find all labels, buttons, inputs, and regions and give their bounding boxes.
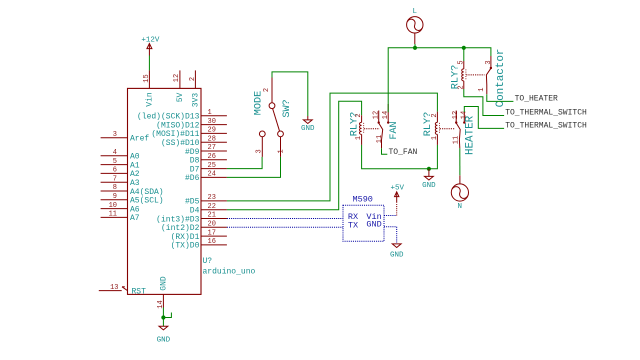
power +12V	[141, 37, 160, 56]
pin 25 D7	[190, 162, 227, 175]
svg-text:(SS)#D10: (SS)#D10	[161, 139, 200, 148]
svg-text:1: 1	[278, 149, 286, 153]
ground M590	[390, 244, 404, 259]
ground relay rail	[422, 169, 436, 190]
svg-text:(RX)D1: (RX)D1	[171, 233, 200, 242]
svg-text:11: 11	[109, 211, 117, 219]
svg-text:(MOSI)#D11: (MOSI)#D11	[151, 130, 199, 139]
pin 23 #D5	[185, 194, 227, 207]
svg-text:11: 11	[452, 136, 460, 144]
svg-text:N: N	[457, 203, 462, 211]
svg-text:MODE: MODE	[253, 91, 264, 115]
svg-text:28: 28	[208, 135, 216, 143]
svg-text:5: 5	[113, 158, 117, 166]
svg-text:22: 22	[208, 203, 216, 211]
junction arduino gnd	[161, 315, 165, 319]
wire contactor pin1 to TO_HEATER	[487, 94, 514, 101]
svg-text:5V: 5V	[176, 93, 185, 103]
svg-text:13: 13	[110, 284, 118, 292]
svg-text:GND: GND	[160, 276, 169, 291]
ac source L	[406, 8, 424, 44]
pin 4 A0	[101, 149, 140, 162]
power +5V	[390, 184, 404, 202]
svg-text:2: 2	[189, 77, 197, 81]
svg-text:A6: A6	[130, 205, 140, 214]
svg-text:Aref: Aref	[130, 135, 149, 144]
svg-text:30: 30	[208, 118, 216, 126]
wire fan pin11 to TO_FAN	[382, 148, 388, 154]
relay contact FAN	[372, 104, 400, 148]
mechanical link contactor	[466, 74, 484, 76]
svg-text:TX: TX	[348, 221, 358, 231]
svg-text:11: 11	[376, 135, 384, 143]
pin 16 (TX)D0	[171, 238, 227, 251]
pin 8 A4(SDA)	[101, 184, 164, 197]
mechanical link heater relay	[440, 128, 455, 130]
svg-text:A1: A1	[130, 161, 140, 170]
svg-text:Vin: Vin	[146, 92, 155, 107]
pin 1 (led)(SCK)D13	[137, 109, 227, 122]
svg-text:(MISO)D12: (MISO)D12	[156, 121, 199, 130]
ac source N	[451, 175, 470, 211]
pin 29 (MOSI)#D11	[151, 127, 227, 140]
relay contact Contactor	[478, 49, 507, 108]
svg-text:12: 12	[372, 111, 380, 119]
svg-text:D8: D8	[190, 157, 200, 166]
svg-text:5: 5	[457, 60, 465, 64]
wire D7 to switch pin3	[227, 157, 262, 169]
pin 11 A7	[101, 211, 140, 224]
svg-text:3: 3	[113, 131, 117, 139]
wire M590 GND dashed	[384, 227, 397, 244]
svg-text:17: 17	[208, 229, 216, 237]
svg-text:24: 24	[208, 171, 216, 179]
wire D6 to switch pin1	[227, 157, 281, 178]
svg-text:FAN: FAN	[389, 121, 400, 139]
svg-text:GND: GND	[422, 182, 436, 190]
wire heater coil pin1 to gnd rail	[429, 145, 438, 169]
svg-text:(int3)#D3: (int3)#D3	[156, 215, 199, 224]
switch SW? MODE	[253, 78, 292, 157]
svg-text:#D6: #D6	[185, 174, 200, 183]
wire L to bus	[414, 44, 416, 48]
pin 24 #D6	[185, 171, 227, 184]
pin 17 (RX)D1	[171, 229, 227, 242]
wire M590 Vin to +5V dashed	[384, 203, 397, 216]
mechanical link fan relay	[364, 128, 380, 130]
svg-text:D4: D4	[190, 207, 200, 216]
pin 13 RST	[99, 284, 146, 297]
wire D4 to fan relay coil	[227, 101, 362, 210]
svg-text:27: 27	[208, 144, 216, 152]
svg-text:3V3: 3V3	[192, 93, 201, 108]
svg-text:23: 23	[208, 194, 216, 202]
wire D3 to M590 RX dashed	[227, 218, 343, 220]
svg-text:1: 1	[208, 109, 212, 117]
IC U? arduino_uno body	[128, 88, 256, 294]
svg-text:21: 21	[208, 212, 216, 220]
svg-text:26: 26	[208, 153, 216, 161]
pin 26 D8	[190, 153, 227, 166]
svg-text:D7: D7	[190, 165, 200, 174]
pin 12 5V	[173, 70, 185, 102]
svg-text:(led)(SCK)D13: (led)(SCK)D13	[137, 113, 200, 122]
svg-text:6: 6	[113, 167, 117, 175]
svg-text:12: 12	[452, 111, 460, 119]
svg-text:4: 4	[113, 149, 117, 157]
junction L	[413, 46, 417, 50]
svg-text:GND: GND	[366, 220, 381, 230]
svg-text:A5(SCL): A5(SCL)	[130, 197, 164, 206]
svg-text:9: 9	[113, 193, 117, 201]
svg-text:8: 8	[113, 184, 117, 192]
wire heater pin14 to TO_THERMAL_SWITCH	[464, 107, 504, 129]
wire fan coil pin1 to gnd rail	[362, 145, 429, 169]
svg-text:TO_THERMAL_SWITCH: TO_THERMAL_SWITCH	[505, 122, 587, 131]
svg-text:GND: GND	[390, 251, 404, 259]
wire D5 to heater relay coil	[227, 93, 438, 201]
wire switch pin2 to GND	[272, 72, 308, 116]
pin 30 (MISO)D12	[156, 118, 227, 131]
svg-text:29: 29	[208, 127, 216, 135]
junction gnd rail	[427, 167, 431, 171]
wire L bus	[388, 48, 491, 112]
svg-text:arduino_uno: arduino_uno	[203, 268, 256, 277]
svg-text:14: 14	[157, 300, 165, 308]
svg-text:Contactor: Contactor	[495, 49, 507, 108]
pin 28 (SS)#D10	[161, 135, 227, 148]
relay coil RLY? contactor	[451, 60, 466, 89]
svg-text:+12V: +12V	[141, 37, 160, 45]
svg-text:M590: M590	[353, 194, 373, 204]
pin 14 GND bottom	[157, 276, 169, 309]
pin 20 (int2)D2	[161, 221, 227, 234]
svg-text:3: 3	[485, 60, 493, 64]
relay coil RLY? fan	[350, 112, 364, 145]
wire heater pin11 to N	[459, 148, 461, 175]
pin 21 (int3)#D3	[156, 212, 227, 225]
svg-text:RLY?: RLY?	[350, 112, 361, 136]
ground arduino	[157, 326, 171, 344]
wire gnd stub right	[163, 313, 171, 318]
pin 2 3V3	[189, 70, 201, 107]
svg-text:A3: A3	[130, 179, 140, 188]
node TO_HEATER	[515, 95, 558, 104]
svg-text:U?: U?	[203, 257, 213, 266]
svg-text:10: 10	[109, 202, 117, 210]
svg-text:15: 15	[143, 74, 151, 82]
svg-text:(TX)D0: (TX)D0	[171, 242, 200, 251]
svg-text:16: 16	[208, 238, 216, 246]
pin 22 D4	[190, 203, 227, 216]
ground switch	[301, 116, 315, 133]
svg-text:HEATER: HEATER	[465, 115, 477, 155]
node TO_THERMAL_SWITCH upper	[505, 109, 587, 118]
svg-text:A2: A2	[130, 170, 140, 179]
svg-text:20: 20	[208, 221, 216, 229]
svg-text:A4(SDA): A4(SDA)	[130, 188, 164, 197]
svg-text:RLY?: RLY?	[423, 112, 434, 136]
wire bus to contactor coil pin5	[463, 48, 465, 61]
svg-text:25: 25	[208, 162, 216, 170]
junction contactor coil	[462, 46, 466, 50]
pin 9 A5(SCL)	[101, 193, 164, 206]
pin 7 A3	[101, 175, 140, 188]
pin 6 A2	[101, 167, 140, 180]
svg-text:L: L	[413, 8, 418, 16]
svg-text:TO_HEATER: TO_HEATER	[515, 95, 558, 104]
svg-text:RLY?: RLY?	[451, 65, 462, 89]
svg-text:GND: GND	[157, 336, 171, 344]
svg-text:+5V: +5V	[390, 184, 404, 192]
svg-text:#D5: #D5	[185, 198, 200, 207]
pin 15 Vin	[143, 70, 155, 106]
svg-text:TO_FAN: TO_FAN	[389, 148, 418, 157]
svg-text:(int2)D2: (int2)D2	[161, 224, 200, 233]
svg-text:GND: GND	[301, 125, 315, 133]
node TO_THERMAL_SWITCH lower	[505, 122, 587, 131]
svg-text:SW?: SW?	[282, 99, 293, 117]
svg-text:TO_THERMAL_SWITCH: TO_THERMAL_SWITCH	[505, 109, 587, 118]
pin 27 #D9	[185, 144, 227, 157]
svg-text:3: 3	[255, 149, 263, 153]
svg-text:7: 7	[113, 175, 117, 183]
wire contactor coil pin2 to TO_THERMAL_SWITCH	[464, 89, 504, 116]
svg-text:12: 12	[173, 74, 181, 82]
pin 3 Aref	[101, 131, 150, 144]
pin 10 A6	[101, 202, 140, 215]
relay contact HEATER	[452, 111, 477, 156]
svg-text:1: 1	[478, 88, 486, 92]
node TO_FAN	[389, 148, 418, 157]
svg-text:#D9: #D9	[185, 148, 200, 157]
svg-text:A7: A7	[130, 214, 140, 223]
wire D2 to M590 TX dashed	[227, 226, 343, 228]
module M590 box	[343, 194, 384, 241]
pin 5 A1	[101, 158, 140, 171]
svg-text:RST: RST	[132, 287, 147, 296]
svg-text:A0: A0	[130, 153, 140, 162]
wire arduino GND pin down	[162, 308, 164, 327]
relay coil RLY? heater	[423, 112, 440, 145]
wire Vin to +12V	[148, 56, 150, 71]
